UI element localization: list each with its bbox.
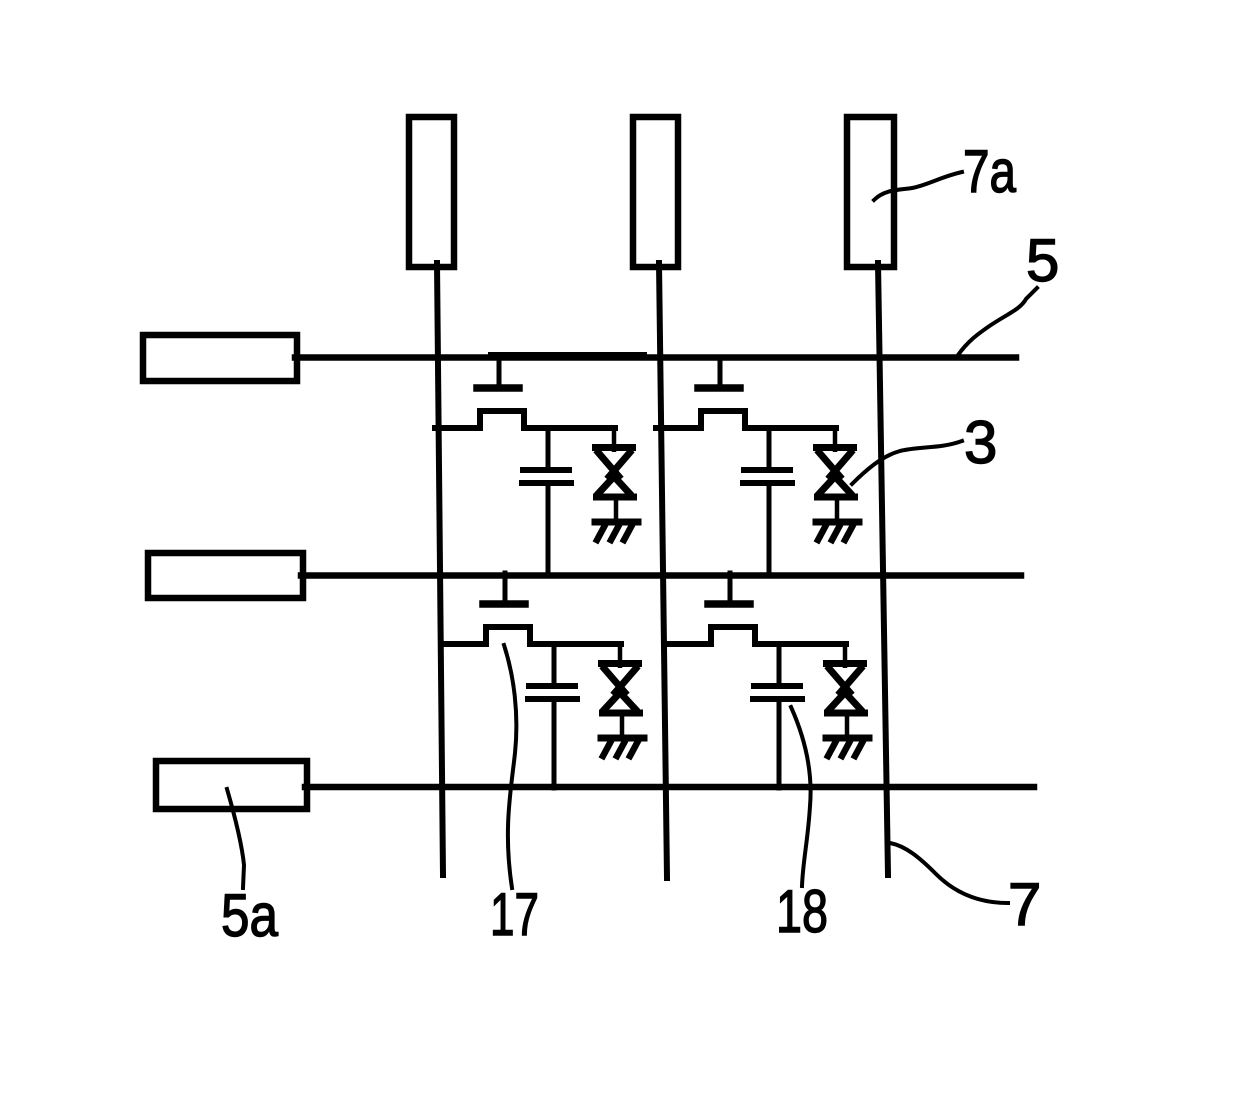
capacitor C4 (18) cell 2,2: [753, 644, 802, 788]
svg-text:5a: 5a: [221, 882, 279, 949]
wire: data line (column 3): [878, 263, 888, 875]
svg-text:7: 7: [1008, 871, 1041, 938]
svg-text:3: 3: [964, 409, 997, 476]
svg-text:7a: 7a: [963, 138, 1016, 205]
ground symbol cell 2,1: [601, 738, 644, 756]
capacitor C3 (17) cell 2,1: [528, 644, 577, 788]
scan line terminal pad 5a (row 3 left): [156, 761, 307, 809]
leader line to label 5: [958, 288, 1037, 355]
scan line terminal pad (row 1 left): [143, 335, 297, 381]
leader line to label 17: [504, 645, 516, 888]
svg-text:5: 5: [1026, 227, 1059, 294]
wire: data line 7 (column 1): [437, 263, 443, 875]
ground symbol cell 1,1: [595, 522, 638, 540]
transistor Q3 pixel TFT cell 2,1: [441, 573, 621, 644]
wire: data line (column 2): [659, 263, 667, 878]
wire: scan line (row 3): [305, 784, 1034, 791]
transistor Q1 pixel TFT cell 1,1: [435, 357, 615, 428]
scan line terminal pad (row 2 left): [148, 553, 303, 598]
varistor D1 nonlinear element cell 1,1: [592, 428, 637, 519]
capacitor C2 cell 1,2: [743, 428, 792, 575]
varistor D2 nonlinear element cell 1,2: [813, 428, 858, 519]
leader line to label 18: [791, 707, 811, 886]
wire: scan line 5 (row 1): [295, 354, 1016, 361]
varistor D3 nonlinear element cell 2,1: [598, 644, 643, 735]
svg-text:18: 18: [776, 878, 828, 945]
data line terminal pad (column 1 top): [409, 117, 454, 267]
leader line to label 7a: [874, 172, 962, 200]
wire: scan line 5 doubled stroke artifact: [490, 352, 645, 356]
wire: scan line (row 2): [301, 572, 1021, 579]
leader line to label 7: [890, 843, 1008, 903]
leader line to label 5a: [227, 789, 244, 888]
data line terminal pad (column 2 top): [633, 117, 678, 267]
data line terminal pad 7a (column 3 top): [847, 117, 894, 267]
svg-text:17: 17: [490, 881, 539, 948]
leader line to label 3: [852, 441, 962, 484]
transistor Q2 pixel TFT cell 1,2: [656, 357, 836, 428]
capacitor C1 cell 1,1: [522, 428, 571, 575]
ground symbol cell 2,2: [826, 738, 869, 756]
transistor Q4 pixel TFT cell 2,2: [666, 573, 846, 644]
varistor D4 nonlinear element cell 2,2: [823, 644, 868, 735]
ground symbol cell 1,2: [816, 522, 859, 540]
